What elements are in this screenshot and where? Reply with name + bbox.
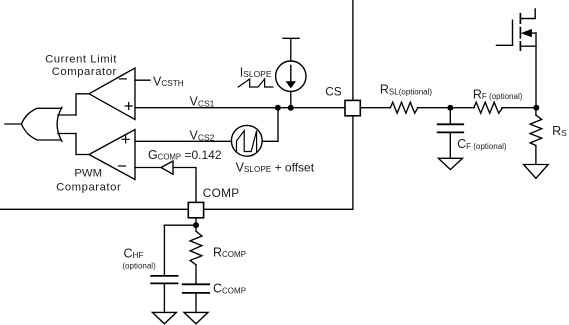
svg-text:GCOMP =0.142: GCOMP =0.142 xyxy=(148,148,222,162)
wire VCSTH stub xyxy=(135,79,150,81)
svg-text:VSLOPE + offset: VSLOPE + offset xyxy=(236,160,315,174)
ground under CF xyxy=(438,158,462,169)
sawtooth icon under I_SLOPE label xyxy=(238,79,273,87)
wire OR input 1 xyxy=(58,114,76,116)
pin CS square xyxy=(345,100,360,115)
wire VCS2 xyxy=(135,140,231,142)
ground under CHF xyxy=(152,312,176,323)
junction node VCS1/Vslope xyxy=(275,105,281,111)
Q1 drain lead xyxy=(520,9,535,19)
pin COMP square xyxy=(188,202,203,217)
or-gate G1 xyxy=(22,108,61,140)
wire V_SLOPE to VCS1 junction xyxy=(262,108,278,142)
wire Q1 source down to RS node xyxy=(535,33,537,108)
wire RCOMP to CCOMP xyxy=(195,265,197,284)
svg-text:RS: RS xyxy=(552,124,567,138)
buffer amp A1 (Gcomp) xyxy=(161,161,173,174)
wire RS to ground xyxy=(535,146,537,165)
wire CHF branch down xyxy=(163,225,165,275)
wire CS to RSL xyxy=(360,107,390,109)
Q1 channel dashes xyxy=(519,14,521,51)
Q1 body arrow xyxy=(521,29,532,37)
IC boundary horizontal line xyxy=(0,208,353,210)
U1 minus sign xyxy=(119,78,126,80)
wire COMP node to CHF branch xyxy=(164,224,196,226)
wire COMP pin down xyxy=(195,218,197,231)
current source I_SLOPE circle xyxy=(276,61,306,91)
svg-text:CS: CS xyxy=(325,85,342,99)
wire RSL to CF node xyxy=(418,107,475,109)
wire VCS1 xyxy=(135,107,345,109)
wire U2 minus to buffer xyxy=(135,167,161,169)
current source I_SLOPE supply bar xyxy=(283,38,299,61)
capacitor CF xyxy=(449,108,451,124)
junction node RS xyxy=(533,105,539,111)
svg-text:VCSTH: VCSTH xyxy=(153,74,184,88)
wire comparator U2 output to OR xyxy=(76,134,89,155)
U2 minus sign xyxy=(118,165,125,167)
resistor RCOMP xyxy=(190,231,202,265)
U1 plus sign xyxy=(125,103,132,110)
svg-text:Current Limit: Current Limit xyxy=(45,53,117,65)
svg-text:RF (optional): RF (optional) xyxy=(473,87,523,101)
IC boundary vertical line xyxy=(352,0,354,209)
or-gate G1 input arc xyxy=(57,107,62,141)
wire comparator U1 output to OR xyxy=(76,94,89,115)
voltage source V_SLOPE circle xyxy=(231,125,262,156)
capacitor CHF xyxy=(151,276,177,284)
junction node CF xyxy=(447,105,453,111)
ground under RS xyxy=(524,165,549,179)
svg-text:VCS2: VCS2 xyxy=(190,129,215,143)
svg-text:Comparator: Comparator xyxy=(52,66,117,78)
svg-text:Comparator: Comparator xyxy=(56,181,121,193)
resistor RS xyxy=(530,115,542,145)
Q1 body/source wires xyxy=(520,33,536,46)
junction node VCS1/Islope xyxy=(288,105,294,111)
resistor RSL xyxy=(390,102,417,113)
U2 plus sign xyxy=(122,136,129,143)
svg-text:COMP: COMP xyxy=(203,186,240,200)
svg-text:RSL(optional): RSL(optional) xyxy=(380,83,433,97)
op-amp U1 (Current Limit Comparator) xyxy=(89,68,135,120)
transistor Q1 (MOSFET) gate lead xyxy=(497,44,513,46)
wire OR input 2 xyxy=(58,133,76,135)
wire node to RS xyxy=(535,108,537,115)
op-amp U2 (PWM Comparator) xyxy=(89,130,135,180)
wire RF to RS node xyxy=(502,107,536,109)
wire I_SLOPE to VCS1 xyxy=(290,91,292,107)
svg-text:CF (optional): CF (optional) xyxy=(457,137,507,151)
ground under CCOMP xyxy=(184,312,208,323)
svg-text:RCOMP: RCOMP xyxy=(213,246,246,260)
Q1 gate plate xyxy=(512,20,514,45)
wire buffer to COMP xyxy=(173,168,196,203)
V_SLOPE sawtooth symbol xyxy=(237,131,257,152)
wire OR gate output xyxy=(5,123,22,125)
svg-text:ISLOPE: ISLOPE xyxy=(240,65,272,79)
I_SLOPE arrow xyxy=(290,66,292,82)
junction node COMP xyxy=(193,222,199,228)
svg-text:CCOMP: CCOMP xyxy=(213,282,246,296)
svg-text:CHF: CHF xyxy=(124,246,144,260)
svg-text:(optional): (optional) xyxy=(122,262,156,271)
svg-text:VCS1: VCS1 xyxy=(190,94,215,108)
resistor RF xyxy=(474,102,503,113)
svg-text:PWM: PWM xyxy=(74,167,102,179)
capacitor CCOMP xyxy=(183,284,209,293)
